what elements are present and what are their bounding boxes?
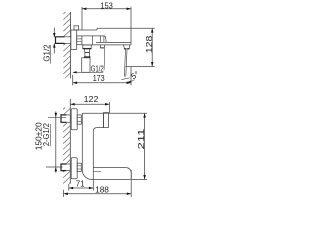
top view: spout base foot	[124, 45, 130, 49]
svg-text:G1/2: G1/2	[43, 44, 52, 62]
dimension 128: bottom extension line	[126, 66, 155, 68]
dimension 188: line with arrows	[64, 193, 132, 195]
front view: bottom escutcheon	[71, 158, 77, 179]
dimension 188: left extension line	[63, 190, 65, 197]
svg-text:188: 188	[95, 185, 109, 194]
front view: bottom supply pipe (bold)	[61, 164, 70, 171]
top view: spray tube at 5 degrees	[124, 49, 125, 76]
svg-text:122: 122	[84, 95, 99, 104]
dimension 122: line with arrows	[70, 103, 109, 105]
dimension 153: line with arrows	[82, 8, 131, 10]
dimension 71: left extension line	[68, 184, 70, 191]
front view: wall line	[69, 99, 71, 184]
top view: wall line above pipe	[70, 12, 72, 37]
dimension 71: right extension line (tube edge extended)	[92, 131, 94, 191]
top view: wall hatching above pipe	[63, 12, 70, 37]
top view: valve neck with rings	[77, 36, 82, 45]
svg-text:128: 128	[145, 35, 154, 53]
front view: body top edge + 211 top extension line	[82, 112, 147, 114]
top view: handle divider on body	[91, 36, 93, 45]
dimension 71: line with arrows	[69, 187, 94, 189]
top view: handle edge on body	[103, 36, 105, 43]
dimension 128: vertical line with arrows	[151, 28, 153, 66]
front view: top connection nut	[77, 115, 81, 124]
dimension 211: vertical line with arrows	[144, 113, 146, 179]
dimension 153: left extension line	[81, 7, 83, 30]
front view: spout capsule	[93, 167, 126, 169]
top view: shower outlet fitting below body	[83, 45, 91, 49]
front view: top escutcheon	[71, 109, 77, 130]
top view: 5 degree reference edge	[122, 78, 130, 80]
top view: body inner bottom line	[96, 41, 131, 43]
top view: wall hatching below pipe	[63, 43, 70, 78]
front view: spout inner line	[93, 170, 101, 172]
dimension 173: right extension line	[130, 67, 132, 85]
svg-text:211: 211	[137, 128, 146, 150]
dimension 173: left extension line	[72, 75, 74, 86]
top view: valve stem cap	[74, 26, 79, 30]
dimension 150±20: top extension line	[48, 116, 66, 118]
top view: wall line below pipe	[70, 43, 72, 78]
dimension 150±20: bottom extension line	[46, 166, 63, 168]
dimension 122: right extension line	[108, 102, 110, 113]
svg-text:153: 153	[100, 1, 113, 10]
svg-text:173: 173	[93, 74, 105, 83]
top view: faucet body outline	[77, 29, 97, 31]
top view: small foot below body	[99, 45, 101, 48]
front view: body block right side	[103, 113, 105, 127]
top view: hand shower holder cup	[82, 58, 90, 73]
dimension 188: right extension line	[130, 170, 132, 197]
dimension 150±20: vertical line with outside arrows	[55, 112, 57, 173]
svg-text:2-G1/2: 2-G1/2	[42, 123, 51, 146]
front view: tube left edge with bottom arc	[82, 113, 91, 179]
dimension 173: line with arrows	[73, 82, 131, 84]
dimension 211: bottom extension line	[131, 178, 147, 180]
top view: supply pipe G1/2 behind wall	[56, 37, 71, 44]
front view: bottom connection nut	[77, 163, 81, 171]
top view: G1/2 pipe dimension arrows	[53, 28, 55, 38]
front view: top supply pipe (bold)	[61, 115, 70, 122]
front view: body cap on right face	[104, 113, 109, 128]
top view: wall escutcheon plate	[71, 30, 77, 49]
svg-text:G1/2: G1/2	[91, 64, 104, 73]
top view: 5 degree arc arrow	[128, 80, 135, 83]
front view: wall hatching	[63, 107, 70, 183]
svg-text:71: 71	[76, 180, 85, 189]
dimension 153: right extension / body right edge	[130, 7, 132, 45]
